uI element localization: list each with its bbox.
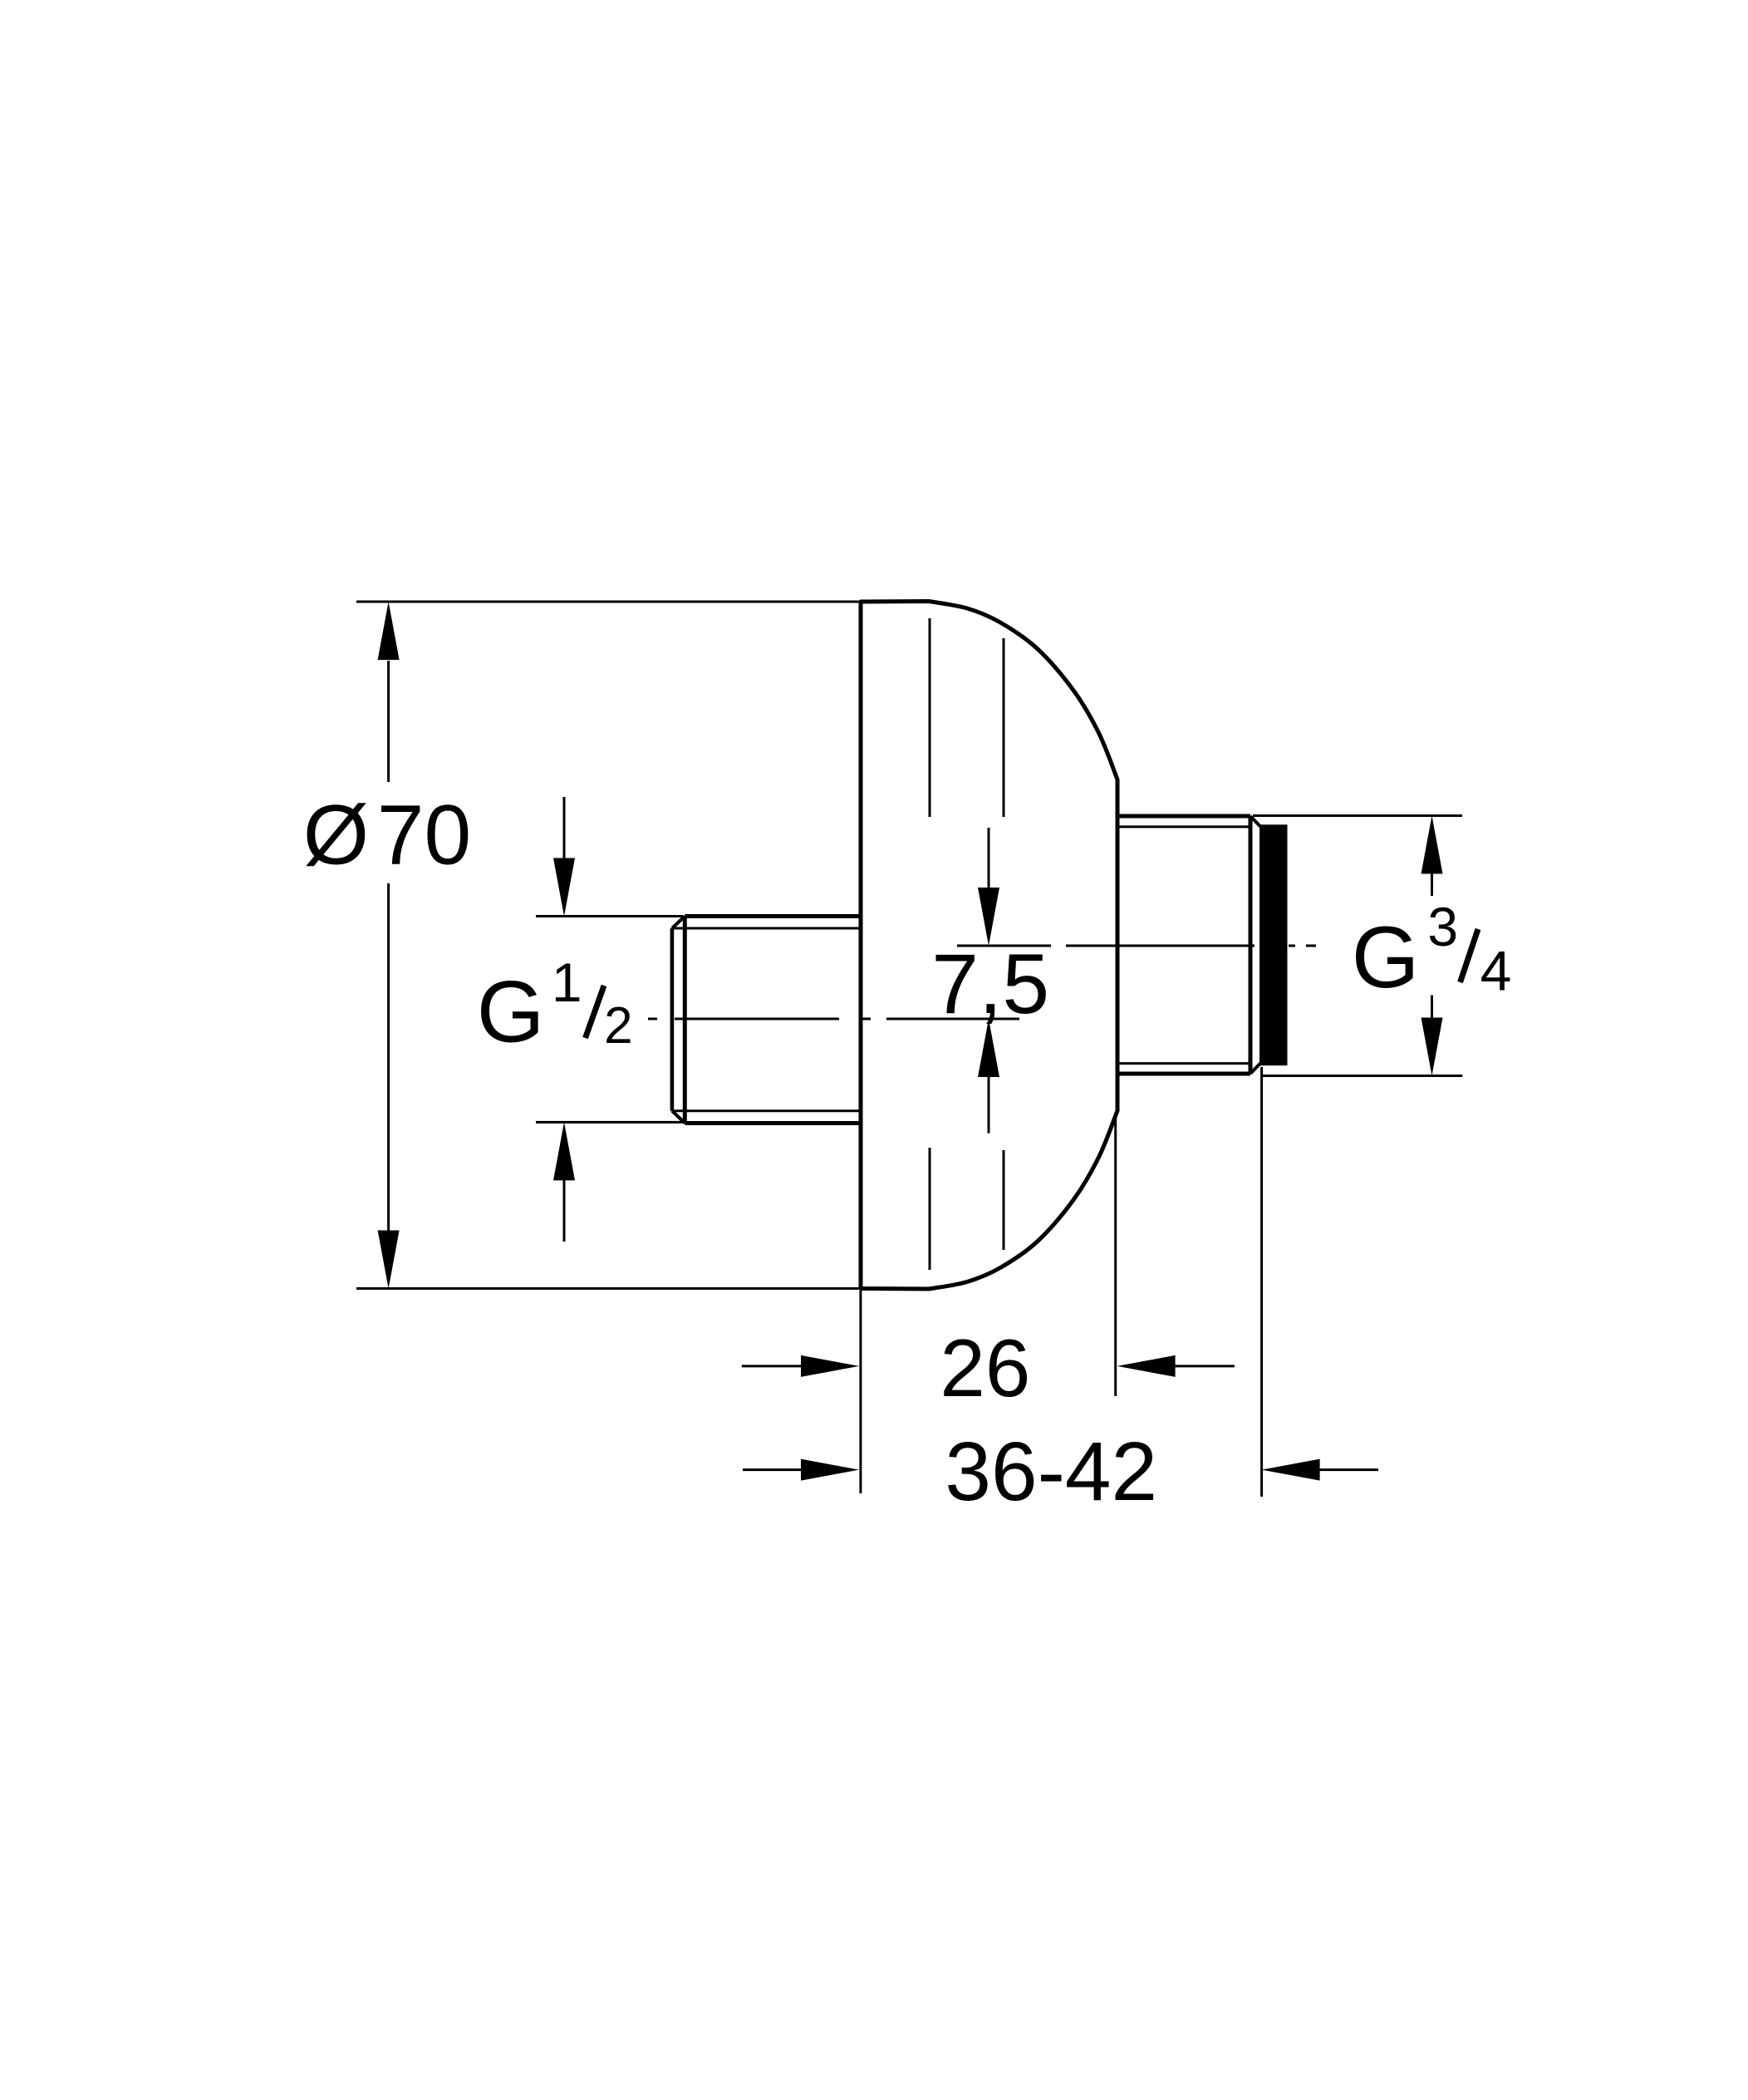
svg-text:7,5: 7,5 [931,937,1049,1031]
flange dome silhouette line 2 (lower) [1003,1150,1005,1250]
dimension 36-42 arrow left [801,1459,859,1481]
G1/2 thread end face [670,928,675,1111]
G1/2 thread root line bottom [673,1109,861,1112]
dimension 36-42 extension line right [1260,1067,1263,1497]
G1/2 chamfer top [672,917,685,929]
dimension 7,5 arrow down [988,828,990,889]
dimension 26 arrow right [1117,1355,1176,1377]
flange dome silhouette line 1 (lower) [929,1148,931,1270]
G3/4 fraction slash [1461,929,1479,982]
G1/2 chamfer bottom [672,1111,685,1124]
G1/2 thread root line top [673,927,861,930]
dimension Ø70 extension line bottom [356,1287,859,1290]
svg-text:Ø: Ø [303,788,369,883]
G1/2 OD arrow up [563,1178,566,1242]
flange dome silhouette line 2 (upper) [1003,638,1005,817]
G1/2 OD extension line bottom [536,1121,683,1124]
svg-text:G: G [1352,909,1420,1006]
svg-text:G: G [477,963,545,1060]
G3/4 OD dim line top [1253,814,1462,817]
G3/4 thread stub outline [1117,814,1250,819]
flange dome silhouette line 1 (upper) [929,618,931,817]
G3/4 OD arrow up [1431,874,1433,897]
G3/4 chamfer top [1250,816,1260,827]
svg-text:3: 3 [1427,896,1458,957]
svg-text:1: 1 [552,952,582,1013]
G3/4 thread root line top [1119,825,1249,828]
G1/2 OD extension line top [536,915,683,917]
dimension Ø70 extension line top [356,601,859,603]
dimension Ø70 arrow up [378,602,400,660]
svg-text:70: 70 [377,788,471,883]
dimension Ø70 line lower segment [387,883,390,1231]
G3/4 OD dim line bottom [1262,1075,1463,1077]
G3/4 chamfer bottom [1250,1064,1260,1075]
dimension 26 extension line right [1114,1114,1117,1396]
svg-text:2: 2 [604,997,632,1055]
dimension Ø70 line upper segment [387,661,390,782]
dimension 36-42 arrow right [1262,1459,1320,1481]
G3/4 thread root line bottom [1119,1062,1249,1065]
G1/2 thread stub outline [685,914,861,918]
svg-text:26: 26 [940,1322,1030,1414]
svg-text:36-42: 36-42 [945,1425,1157,1518]
dimension 26 arrow left [801,1355,859,1377]
G3/4 flat seal washer (section, solid) [1259,824,1288,1065]
G1/2 OD arrow down [563,797,566,861]
centre line G1/2 axis [648,1018,657,1020]
dimension Ø70 arrow down [378,1231,400,1289]
dimension 7,5 arrow up [988,1075,990,1134]
dimension 26 extension line left [859,1291,862,1493]
G3/4 OD arrow down [1431,996,1433,1018]
escutcheon flange body outline [861,602,1117,1290]
centre line G3/4 axis [957,945,1051,947]
G1/2 fraction slash [586,986,605,1038]
svg-text:4: 4 [1480,939,1512,1002]
